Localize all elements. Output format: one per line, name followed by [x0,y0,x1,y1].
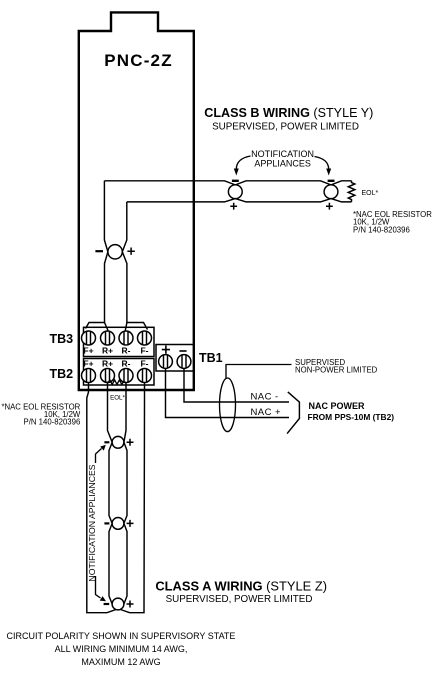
arrow to appliance A1 [236,156,250,169]
cable grouping ellipse [220,378,236,432]
polarity plus A6 [127,601,134,608]
notification appliance A6 (class A) [112,598,124,610]
svg-text:TB2: TB2 [50,367,74,381]
svg-text:EOL*: EOL* [362,190,379,197]
jumper TB3 F+ to R+ [86,323,109,331]
svg-text:P/N 140-820396: P/N 140-820396 [24,418,81,427]
svg-text:FROM PPS-10M (TB2): FROM PPS-10M (TB2) [308,412,395,422]
svg-text:P/N 140-820396: P/N 140-820396 [353,226,410,235]
svg-text:SUPERVISED, POWER LIMITED: SUPERVISED, POWER LIMITED [166,594,313,605]
notification appliance A5 (class A) [112,518,124,530]
svg-text:PNC-2Z: PNC-2Z [104,51,173,70]
notification appliance A4 (class A) [112,436,124,448]
arrow to appliance A4 [96,449,102,464]
screw terminal TB2-R- [119,369,133,383]
polarity minus A6 [104,603,110,605]
arrow to appliance A6 [96,576,101,598]
wire appliance A3 down to TB3 jumper right [122,252,127,323]
terminal block TB3 body [84,327,155,356]
screw terminal TB2-F- [138,369,152,383]
screw terminal TB2-R+ [101,369,115,383]
wire from appliance A3 up to NAC plus run [122,202,127,252]
polarity plus A3 [127,248,134,255]
wire from appliance A3 up to NAC minus run [104,181,108,252]
svg-text:SUPERVISED, POWER LIMITED: SUPERVISED, POWER LIMITED [212,121,359,132]
polarity plus A2 [326,203,333,210]
screw terminal TB3-R+ [101,331,115,345]
svg-text:F+: F+ [83,359,93,369]
screw terminal TB1-plus [159,355,173,369]
notification appliance A1 (class B) [228,185,242,199]
resistor EOL across TB2 R+/R- [106,380,126,385]
polarity plus A5 [127,520,134,527]
resistor EOL (class B NAC end-of-line) [348,181,355,202]
polarity minus A2 [328,180,335,182]
polarity minus A3 [95,250,103,252]
screw terminal TB2-F+ [82,369,96,383]
wire A5 to A6 left [109,523,112,604]
wire TB2 F- down (class A return right rail) [121,382,145,613]
terminal block TB1 body [156,345,194,372]
wire A5 to A6 right [124,523,127,604]
wire A4 to A5 right [124,442,127,523]
polarity plus A1 [230,203,237,210]
wire A4 to A5 left [109,442,112,523]
svg-text:EOL*: EOL* [110,395,125,402]
polarity minus TB1 [179,350,186,352]
wire TB1 plus to NAC+ [166,368,290,418]
svg-text:NAC +: NAC + [251,407,282,418]
svg-text:CLASS B WIRING (STYLE Y): CLASS B WIRING (STYLE Y) [204,106,373,120]
wire NAC plus (bottom, class B run) [127,199,352,202]
svg-text:TB3: TB3 [50,332,74,346]
svg-text:R-: R- [122,359,131,369]
pointer line supervised non-power limited [226,365,292,379]
screw terminal TB1-minus [177,355,191,369]
wire TB2 F+ down (class A return left rail) [87,382,116,613]
svg-text:APPLIANCES: APPLIANCES [254,159,311,169]
wire appliance A3 down to TB3 jumper left [105,252,108,323]
enclosure PNC-2Z outline [79,12,194,390]
svg-text:MAXIMUM 12 AWG: MAXIMUM 12 AWG [81,657,160,667]
wire TB2 R- down to appliance A4 [124,382,126,442]
screw terminal TB3-R- [119,331,133,345]
svg-text:NOTIFICATION APPLIANCES: NOTIFICATION APPLIANCES [87,464,97,581]
polarity minus A4 [104,441,109,443]
wire TB1 minus to NAC- [184,368,289,402]
polarity plus A4 [127,439,134,446]
svg-text:TB1: TB1 [199,351,223,365]
polarity plus TB1 [162,346,170,354]
wire TB2 R+ down to appliance A4 [108,382,113,442]
svg-text:R+: R+ [102,359,113,369]
svg-text:ALL WIRING MINIMUM 14 AWG,: ALL WIRING MINIMUM 14 AWG, [55,644,188,654]
screw terminal TB3-F+ [82,331,96,345]
svg-text:F-: F- [140,346,148,356]
arrow to appliance A2 [315,157,329,170]
svg-text:R-: R- [122,346,131,356]
svg-text:CIRCUIT POLARITY SHOWN IN SUPE: CIRCUIT POLARITY SHOWN IN SUPERVISORY ST… [7,631,236,641]
svg-text:CLASS A WIRING (STYLE Z): CLASS A WIRING (STYLE Z) [155,579,327,594]
terminal block TB2 body [84,359,155,386]
svg-text:F+: F+ [83,346,93,356]
svg-text:NAC -: NAC - [251,391,279,402]
notification appliance A3 (inside panel run) [108,245,122,259]
svg-text:R+: R+ [102,346,113,356]
polarity minus A5 [104,522,109,524]
svg-text:NAC POWER: NAC POWER [309,401,366,411]
svg-text:NON-POWER LIMITED: NON-POWER LIMITED [295,366,378,375]
jumper TB3 R- to F- [125,323,147,331]
bracket NAC power [287,392,299,434]
polarity minus A1 [232,180,239,182]
wire NAC minus (top, class B run) [104,181,351,185]
screw terminal TB3-F- [138,331,152,345]
notification appliance A2 (class B) [324,185,338,199]
svg-text:F-: F- [140,359,148,369]
